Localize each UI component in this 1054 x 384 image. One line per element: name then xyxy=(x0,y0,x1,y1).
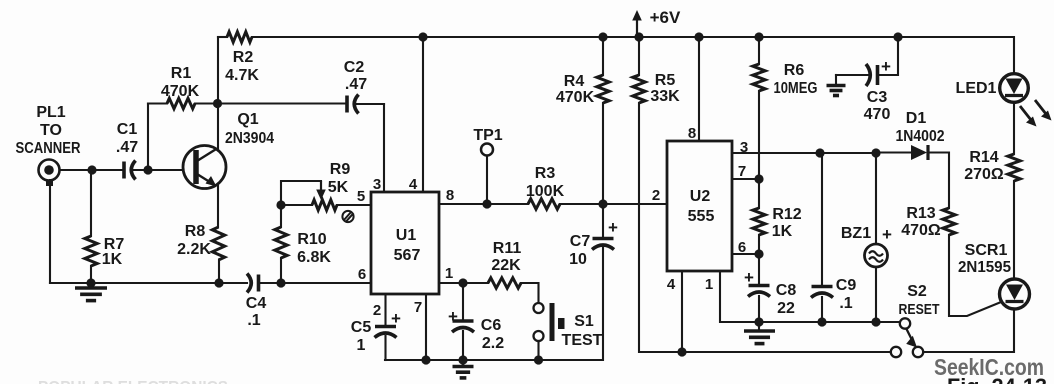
wire: pin3 line to C9 xyxy=(821,153,823,286)
node: C4 / R10 xyxy=(276,278,285,287)
svg-text:+6V: +6V xyxy=(650,8,681,27)
svg-text:+: + xyxy=(608,218,618,237)
resistor R4 xyxy=(597,75,609,103)
label C5 1 xyxy=(351,319,372,354)
svg-text:R8: R8 xyxy=(185,223,206,240)
wire: U2 pin4 drop xyxy=(681,271,683,352)
svg-text:D1: D1 xyxy=(906,110,927,127)
svg-text:TEST: TEST xyxy=(562,332,603,349)
label R1 470K xyxy=(161,65,200,100)
svg-text:2.2: 2.2 xyxy=(482,335,504,352)
label R13 470ohm xyxy=(901,205,941,239)
IC U2 555 timer box xyxy=(667,141,732,271)
svg-text:2: 2 xyxy=(652,187,660,204)
svg-text:RESET: RESET xyxy=(899,302,940,318)
capacitor C9 (.1) xyxy=(811,287,833,298)
wire: U1 pin7 drop xyxy=(425,294,427,360)
node: U1 pin1 / C6 xyxy=(458,278,467,287)
svg-text:R10: R10 xyxy=(297,231,326,248)
node: rail / R4 xyxy=(598,32,607,41)
node: rail / R5 xyxy=(634,32,643,41)
power +6V arrow xyxy=(632,10,642,37)
node: pin6 / R12 / C8 xyxy=(754,249,763,258)
svg-text:33K: 33K xyxy=(650,88,680,105)
svg-text:+: + xyxy=(448,307,458,326)
wire: S1 bottom contact drop xyxy=(537,341,539,360)
svg-text:R6: R6 xyxy=(784,62,805,79)
node: bottom line / C6 / ground xyxy=(458,355,467,364)
svg-text:SCANNER: SCANNER xyxy=(16,140,81,157)
svg-text:7: 7 xyxy=(738,163,746,180)
svg-text:+: + xyxy=(391,309,401,328)
wire: D1 cathode to R13 xyxy=(930,153,949,209)
wire: R8 to ground line xyxy=(218,260,220,283)
capacitor C6 (2.2) xyxy=(452,321,474,332)
label R3 100K xyxy=(526,165,565,200)
ground (R7) xyxy=(75,288,107,301)
svg-text:S2: S2 xyxy=(907,283,927,300)
wire: C9 to pin1 line xyxy=(821,297,823,322)
wire: C7 drop and bottom line to C5 xyxy=(385,247,603,360)
wire: rail to R5 xyxy=(638,37,640,75)
svg-text:6: 6 xyxy=(358,266,366,283)
svg-text:C3: C3 xyxy=(867,89,888,106)
svg-text:2: 2 xyxy=(373,302,381,319)
wire: C1 to Q1 base xyxy=(133,169,183,171)
ground (C3) xyxy=(827,86,846,96)
label C3 470 xyxy=(864,89,891,123)
svg-text:PL1: PL1 xyxy=(36,104,65,121)
label C8 22 xyxy=(776,282,797,317)
svg-text:C5: C5 xyxy=(351,319,372,336)
wire: ground line left of C4 xyxy=(50,282,247,284)
R9 wiper arrow xyxy=(316,181,326,200)
node: base / R1 xyxy=(143,165,152,174)
wire: R3 to U2 pin 2 xyxy=(560,203,667,205)
node: R9/R10 xyxy=(276,200,285,209)
svg-text:R3: R3 xyxy=(535,165,556,182)
label C2 .47 xyxy=(344,59,367,93)
wire: base node to R7 xyxy=(90,170,92,236)
resistor R8 xyxy=(212,227,224,260)
svg-text:Fig. 24-13: Fig. 24-13 xyxy=(947,374,1047,384)
svg-text:C6: C6 xyxy=(481,317,502,334)
wire: collector node to C2 xyxy=(195,102,345,104)
svg-text:S1: S1 xyxy=(574,313,594,330)
label C4 .1 xyxy=(246,295,267,329)
wire: PL1 to C1 xyxy=(60,169,122,171)
svg-text:1K: 1K xyxy=(772,223,793,240)
wire: pin3 line to BZ1 xyxy=(875,153,877,244)
label D1 1N4002 xyxy=(896,110,945,145)
svg-text:R1: R1 xyxy=(171,65,192,82)
svg-text:R11: R11 xyxy=(493,240,522,257)
wire: rail to R4 xyxy=(602,37,604,75)
svg-text:LED1: LED1 xyxy=(956,80,997,97)
svg-text:470Ω: 470Ω xyxy=(901,222,941,239)
wire: C3 ground lead xyxy=(836,74,868,76)
node: pin1 line / C9 xyxy=(817,317,826,326)
wire: PL1 shell drop xyxy=(49,180,51,283)
svg-text:C9: C9 xyxy=(836,277,857,294)
transistor Q1 2N3904 xyxy=(183,146,226,189)
wire: U2 pin7 to R12 xyxy=(732,178,759,180)
diode D1 1N4002 xyxy=(911,145,928,160)
node: ground line / R7 xyxy=(86,278,95,287)
label Q1 2N3904 xyxy=(225,111,274,147)
wire: +6V to U1 pin 4 xyxy=(422,37,424,192)
svg-text:22K: 22K xyxy=(491,257,521,274)
svg-text:270Ω: 270Ω xyxy=(964,166,1004,183)
wire: R2 drop / Q1 collector xyxy=(217,37,219,149)
wire: U2 pin3 output line xyxy=(732,152,876,154)
svg-text:4: 4 xyxy=(409,176,418,193)
wire: R10 to C4 node xyxy=(280,258,282,283)
svg-text:10: 10 xyxy=(569,251,587,268)
svg-text:1: 1 xyxy=(705,276,713,293)
svg-text:567: 567 xyxy=(394,247,421,264)
wire: C6 node drop xyxy=(462,283,464,321)
resistor R14 xyxy=(1008,154,1020,181)
label C6 2.2 xyxy=(481,317,504,352)
label R7 1K xyxy=(102,236,125,268)
node: rail / U2 pin8 xyxy=(694,32,703,41)
wire: ground stem U1 area xyxy=(462,360,464,366)
test point TP1 xyxy=(481,144,493,156)
wire: +6V rail to LED1 xyxy=(252,37,1014,74)
svg-text:6: 6 xyxy=(738,239,746,256)
thyristor SCR1 2N1595 xyxy=(1000,279,1030,309)
node: bottom line / S1 xyxy=(534,355,543,364)
wire: C2 to U1 pin3 xyxy=(355,103,384,105)
wire: Q1 emitter to R8 xyxy=(217,184,219,227)
svg-text:+: + xyxy=(881,57,891,76)
wire: C3 to +6V rail xyxy=(879,37,898,75)
connector PL1 phono jack xyxy=(39,160,60,187)
svg-text:C4: C4 xyxy=(246,295,267,312)
label SCR1 2N1595 xyxy=(958,242,1011,276)
wire: ground stem C3 xyxy=(835,75,837,85)
wire: C4 to U1 pin 6 xyxy=(261,282,371,284)
wire: U2 pin1 line to S2 xyxy=(720,271,900,322)
svg-text:C7: C7 xyxy=(570,233,591,250)
node: bottom line / pin7 xyxy=(421,355,430,364)
svg-text:470K: 470K xyxy=(161,83,200,100)
resistor R5 xyxy=(633,75,645,103)
node: pin1 line / BZ1 xyxy=(871,317,880,326)
op-amp/IC U1 567 tone decoder box xyxy=(371,192,439,294)
node: ground line / R8 xyxy=(214,278,223,287)
node: Q1 collector junction xyxy=(213,99,222,108)
label C7 10 xyxy=(569,233,590,268)
resistor R13 xyxy=(943,208,955,235)
node: pin7 / R12 xyxy=(754,174,763,183)
polarity + marks xyxy=(391,57,892,328)
svg-text:SCR1: SCR1 xyxy=(965,242,1008,259)
node: R3/R4/C7/pin2 xyxy=(598,199,607,208)
wire: R9 wiper bracket xyxy=(281,181,321,205)
node: bottom rail / U2 pin4 xyxy=(677,347,686,356)
svg-text:R2: R2 xyxy=(233,49,254,66)
wire: C5 to bottom line xyxy=(384,336,386,360)
svg-text:3: 3 xyxy=(740,139,748,156)
label R11 22K xyxy=(491,240,521,274)
svg-text:.47: .47 xyxy=(116,139,138,156)
svg-text:2.2K: 2.2K xyxy=(177,241,211,258)
node: pin1 line / C8 / ground xyxy=(754,317,763,326)
wire: R9 node to R10 xyxy=(280,205,282,227)
wire: R9 left lead xyxy=(281,204,312,206)
label R4 470K xyxy=(556,73,595,106)
capacitor C5 (1) xyxy=(375,327,397,338)
svg-text:6.8K: 6.8K xyxy=(297,249,331,266)
svg-text:100K: 100K xyxy=(526,183,565,200)
U1 pin numbers xyxy=(357,176,454,319)
svg-text:R4: R4 xyxy=(564,73,585,90)
svg-text:R12: R12 xyxy=(772,206,801,223)
resistor R10 xyxy=(275,227,287,258)
wire: R9 to U1 pin 5 xyxy=(337,204,371,206)
wire: TP1 drop xyxy=(486,156,488,204)
svg-text:TO: TO xyxy=(40,122,62,139)
svg-text:R13: R13 xyxy=(906,205,935,222)
svg-text:10MEG: 10MEG xyxy=(774,80,818,97)
ground (U1 area) xyxy=(453,367,474,378)
svg-text:Q1: Q1 xyxy=(237,111,258,128)
wire: C8 to ground node xyxy=(758,296,760,322)
svg-text:TP1: TP1 xyxy=(473,127,502,144)
label S2 RESET xyxy=(899,283,940,318)
svg-text:POPULAR ELECTRONICS: POPULAR ELECTRONICS xyxy=(38,379,228,384)
svg-text:R9: R9 xyxy=(330,161,351,178)
label U1 567 xyxy=(394,227,421,264)
wire: R5 drop and bottom rail to S2 xyxy=(639,103,891,352)
capacitor C4 (.1) xyxy=(247,274,259,293)
wire: R1 to base node xyxy=(147,104,149,171)
wire: U1 pin2 to C5 xyxy=(384,294,386,326)
capacitor C2 (.47) xyxy=(347,95,359,114)
wire: +6V rail left stub xyxy=(218,36,227,38)
svg-text:+: + xyxy=(882,225,892,244)
label U2 555 xyxy=(688,188,715,225)
wire: R14 to SCR1 xyxy=(1013,181,1015,279)
node: pin3 line / C9 xyxy=(815,148,824,157)
svg-text:1K: 1K xyxy=(102,251,123,268)
wire: R7 to ground line xyxy=(90,266,92,288)
svg-text:1: 1 xyxy=(445,265,453,282)
label C9 .1 xyxy=(836,277,857,312)
label R14 270ohm xyxy=(964,149,1004,183)
node: input / R7 xyxy=(87,165,96,174)
svg-text:C2: C2 xyxy=(344,59,365,76)
svg-text:U2: U2 xyxy=(690,188,711,205)
buzzer BZ1 xyxy=(865,244,888,267)
wire: R1 left segment xyxy=(148,102,167,104)
wire: rail to R6 xyxy=(758,37,760,64)
label R5 33K xyxy=(650,72,680,105)
label R8 2.2K xyxy=(177,223,211,258)
resistor R11 xyxy=(488,278,521,288)
svg-text:1: 1 xyxy=(357,337,366,354)
wire: node to C7 xyxy=(602,204,604,238)
LED1 emission arrows xyxy=(1020,100,1052,127)
svg-text:2N1595: 2N1595 xyxy=(958,259,1011,276)
node: rail / R6 xyxy=(754,32,763,41)
wire: C6 to bottom line xyxy=(462,331,464,360)
wire: BZ1 to pin1 line xyxy=(875,267,877,322)
node: pin3 line / BZ1 / D1 xyxy=(871,148,880,157)
capacitor C3 (470) xyxy=(866,64,878,86)
R9 screwdriver-adjust symbol xyxy=(342,211,353,222)
svg-text:BZ1: BZ1 xyxy=(841,225,871,242)
node: TP1 xyxy=(482,199,491,208)
wire: rail to U2 pin 8 xyxy=(698,37,700,141)
svg-text:470K: 470K xyxy=(556,89,595,106)
capacitor C1 (.47) xyxy=(124,161,136,180)
svg-text:8: 8 xyxy=(688,125,696,142)
svg-text:.47: .47 xyxy=(345,76,367,93)
label C1 .47 xyxy=(116,121,138,156)
node: rail / C3 xyxy=(893,32,902,41)
wire: U1 pin1 to C6 node xyxy=(439,282,463,284)
svg-text:.1: .1 xyxy=(839,295,852,312)
svg-text:R14: R14 xyxy=(969,149,998,166)
resistor R6 xyxy=(753,64,765,91)
switch S2 RESET xyxy=(891,318,923,357)
svg-text:U1: U1 xyxy=(396,227,417,244)
svg-text:4.7K: 4.7K xyxy=(225,67,259,84)
capacitor C7 (10) xyxy=(592,239,614,250)
label R9 5K xyxy=(328,161,351,196)
label R2 4.7K xyxy=(225,49,259,84)
wire: R12 to C8 xyxy=(758,235,760,285)
capacitor C8 (22) xyxy=(748,286,770,297)
svg-text:R5: R5 xyxy=(655,72,676,89)
svg-text:+: + xyxy=(744,268,754,287)
svg-text:C8: C8 xyxy=(776,282,797,299)
wire: R6 to R12 node xyxy=(758,91,760,208)
svg-text:7: 7 xyxy=(414,299,422,316)
svg-text:3: 3 xyxy=(373,176,381,193)
resistor R12 xyxy=(753,208,765,235)
svg-text:22: 22 xyxy=(777,300,795,317)
wire: R4 to pin2 line xyxy=(602,103,604,204)
resistor R2 xyxy=(227,32,252,42)
label R12 1K xyxy=(772,206,802,240)
label R10 6.8K xyxy=(297,231,331,266)
wire: ground stem C8 xyxy=(758,322,760,331)
node: rail / U1 pin4 xyxy=(418,32,427,41)
wire: C6 node to R11 xyxy=(463,282,488,284)
wire: LED1 to R14 xyxy=(1013,102,1015,154)
resistor R3 xyxy=(528,199,560,209)
label R6 10MEG xyxy=(774,62,818,97)
wire: R13 to SCR1 gate xyxy=(949,235,1001,316)
wire: SCR1 cathode to S2 xyxy=(924,309,1015,352)
svg-text:555: 555 xyxy=(688,208,715,225)
svg-text:5: 5 xyxy=(357,188,365,205)
U2 pin numbers xyxy=(652,125,748,293)
svg-text:8: 8 xyxy=(446,187,454,204)
switch S1 TEST pushbutton xyxy=(534,303,565,341)
wire: U1 pin8 to R3 xyxy=(439,203,528,205)
label PL1 xyxy=(36,104,65,139)
resistor R9 (pot element) xyxy=(312,200,337,210)
resistor R1 xyxy=(167,98,195,108)
svg-text:2N3904: 2N3904 xyxy=(225,130,274,147)
svg-text:4: 4 xyxy=(667,276,676,293)
wire: U2 pin6 to node xyxy=(732,253,759,255)
svg-text:470: 470 xyxy=(864,106,891,123)
svg-text:5K: 5K xyxy=(328,179,349,196)
svg-text:C1: C1 xyxy=(117,121,138,138)
LED LED1 xyxy=(1000,74,1029,103)
wire: R11 to S1 top contact xyxy=(521,283,539,303)
ground (C8) xyxy=(744,331,775,344)
wire: drop to U1 pin 3 xyxy=(383,104,385,192)
svg-text:1N4002: 1N4002 xyxy=(896,128,945,145)
resistor R7 xyxy=(85,236,97,266)
svg-text:.1: .1 xyxy=(247,312,260,329)
label S1 TEST xyxy=(562,313,603,349)
wire: to D1 anode xyxy=(876,151,911,153)
